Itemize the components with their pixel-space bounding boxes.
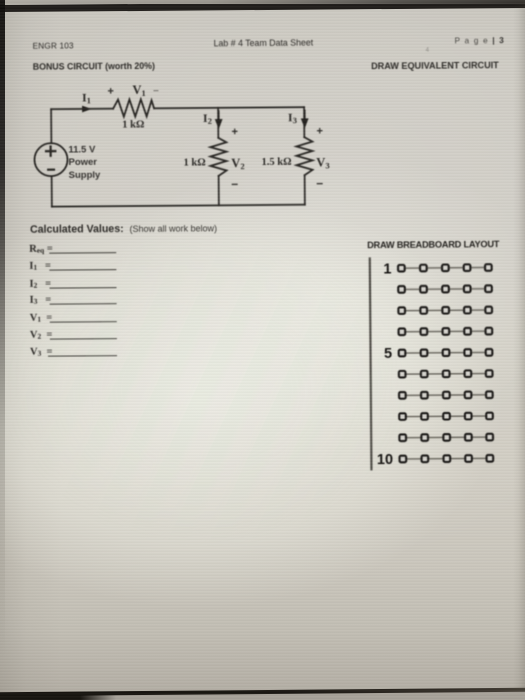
breadboard row 9 — [399, 434, 493, 441]
row V2 blank — [30, 329, 53, 340]
breadboard row 4 — [399, 328, 493, 335]
wire: left vertical upper (node A down to source +) — [50, 109, 52, 143]
resistor R2 (vertical zigzag) — [210, 138, 226, 176]
photo frame: left dark sliver — [0, 0, 5, 660]
photo frame: area below bottom line — [0, 691, 525, 700]
header: sheet title — [214, 37, 314, 48]
current arrow I3 (vertical, head down) — [304, 110, 306, 121]
small stray mark below page number — [426, 48, 429, 54]
photo frame: strip above top band — [0, 0, 525, 4]
photo frame: dark bottom-left corner — [0, 692, 116, 700]
wire: bottom horizontal (node D to node F) — [52, 205, 305, 207]
breadboard row 10 — [400, 455, 494, 462]
wire: middle vertical lower (R2 to bottom wire) — [218, 176, 220, 205]
wire: right vertical lower (R3 to bottom wire) — [304, 175, 306, 204]
section heading left — [33, 60, 155, 71]
wire: left vertical lower (source - down to node D) — [51, 176, 53, 206]
breadboard heading — [367, 239, 499, 250]
row I1 blank — [29, 261, 51, 272]
breadboard row 1 — [398, 264, 492, 271]
row V1 blank — [30, 312, 53, 323]
breadboard row 3 — [398, 307, 492, 314]
moire sheen overlay — [0, 180, 460, 600]
current arrow I1 (arrowhead on top wire) — [82, 106, 92, 113]
wire: right vertical upper (node C to R3) — [303, 107, 305, 137]
breadboard row 7 — [399, 391, 493, 398]
row I2 blank — [29, 278, 51, 289]
breadboard row 8 — [399, 413, 493, 420]
resistor R1 (horizontal zigzag) — [113, 99, 154, 116]
photo frame: right edge shade — [513, 0, 525, 700]
wire: top horizontal right segment (R1 to node C) — [154, 107, 304, 108]
wire: middle vertical upper (node B to R2) — [217, 108, 219, 138]
row Req blank — [29, 244, 53, 255]
row I3 blank — [30, 295, 52, 306]
photo frame: top bezel band — [0, 1, 525, 12]
section heading right — [371, 60, 499, 71]
voltage source minus terminal mark — [47, 169, 55, 171]
breadboard left rail line — [370, 257, 372, 470]
header: course number — [33, 42, 74, 51]
wire: top horizontal left segment (node A to R1) — [51, 108, 113, 110]
header: page number — [455, 36, 505, 45]
breadboard row 6 — [399, 370, 493, 377]
row V3 blank — [30, 347, 53, 358]
breadboard row 2 — [398, 285, 492, 292]
resistor R3 (vertical zigzag) — [296, 137, 312, 175]
voltage source plus terminal mark — [45, 145, 57, 157]
photo frame: bottom dark line — [0, 687, 525, 697]
current arrow I2 (vertical, head down) — [218, 110, 220, 121]
calculated values heading — [30, 222, 217, 235]
voltage source VS circle (11.5 V power supply) — [34, 143, 67, 176]
breadboard row 5 — [399, 349, 493, 356]
